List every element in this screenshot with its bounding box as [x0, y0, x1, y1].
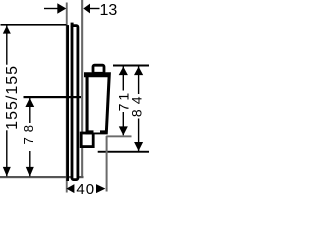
svg-text:40: 40: [76, 181, 95, 198]
svg-text:84: 84: [128, 92, 144, 118]
svg-text:13: 13: [100, 2, 118, 19]
svg-text:78: 78: [21, 120, 36, 144]
svg-text:155/155: 155/155: [4, 65, 21, 130]
